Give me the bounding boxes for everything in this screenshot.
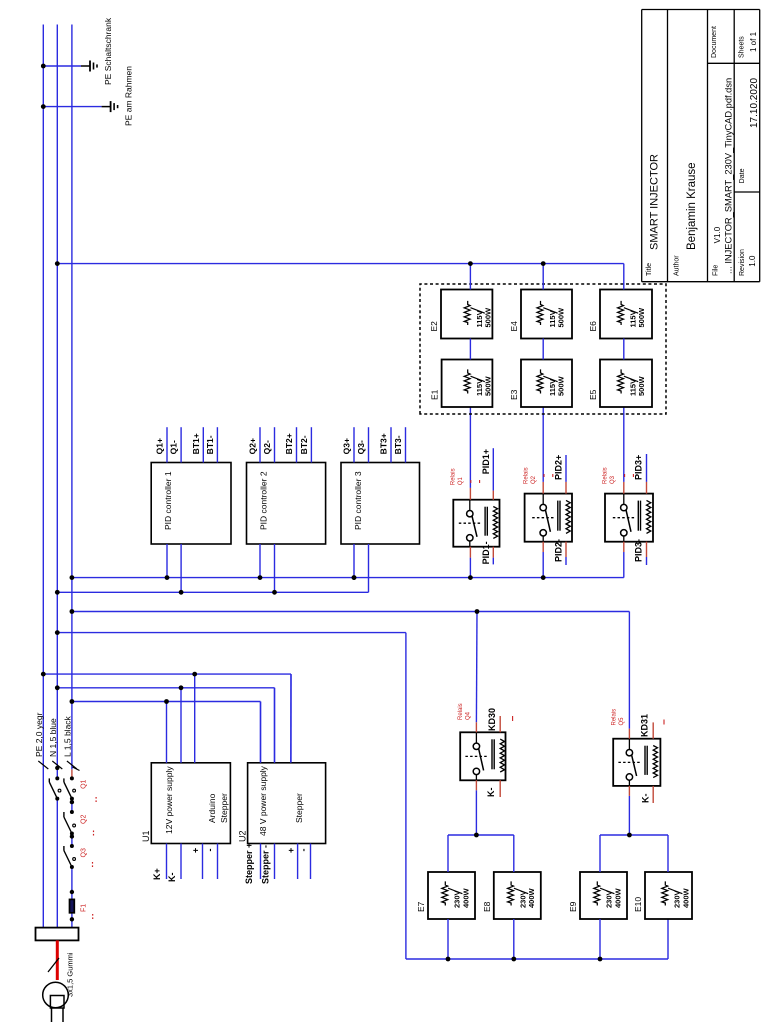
svg-text:KD30: KD30 <box>487 708 497 731</box>
svg-text:Arduino: Arduino <box>207 793 217 823</box>
svg-text:K-: K- <box>486 788 496 798</box>
svg-text:BT1-: BT1- <box>205 435 215 454</box>
svg-text:Q3: Q3 <box>610 475 616 484</box>
svg-text:E7: E7 <box>416 901 426 912</box>
svg-text:Document: Document <box>711 26 718 58</box>
svg-text:PID controller 1: PID controller 1 <box>163 471 173 530</box>
svg-text:E10: E10 <box>633 897 643 912</box>
svg-text:V1.0: V1.0 <box>713 226 722 243</box>
svg-text:Q1: Q1 <box>458 476 464 485</box>
svg-text:Stepper: Stepper <box>219 793 229 823</box>
svg-text:Author: Author <box>673 255 680 276</box>
svg-text:400W: 400W <box>461 887 470 908</box>
svg-text:-: - <box>205 849 215 852</box>
svg-text:Q2+: Q2+ <box>248 438 258 454</box>
svg-text:Stepper -: Stepper - <box>261 845 271 884</box>
svg-text:Relais: Relais <box>458 703 464 720</box>
svg-text:Q2: Q2 <box>81 815 88 824</box>
svg-text:Q4: Q4 <box>466 711 472 720</box>
svg-text:U1: U1 <box>141 830 151 842</box>
svg-text:E9: E9 <box>568 901 578 912</box>
svg-text:PE Schaltschrank: PE Schaltschrank <box>103 17 113 85</box>
svg-text:BT2-: BT2- <box>299 435 309 454</box>
svg-text:BT1+: BT1+ <box>191 433 201 454</box>
svg-text:Stepper +: Stepper + <box>244 843 254 884</box>
svg-text:400W: 400W <box>613 887 622 908</box>
svg-text:PID controller 2: PID controller 2 <box>259 471 269 530</box>
svg-text:PID2+: PID2+ <box>554 455 564 480</box>
svg-text:E1: E1 <box>430 389 440 400</box>
svg-text:Q3+: Q3+ <box>342 438 352 454</box>
svg-text:500W: 500W <box>637 375 646 396</box>
svg-text:+: + <box>286 848 296 853</box>
svg-text:Relais: Relais <box>603 467 609 484</box>
svg-text:E3: E3 <box>509 389 519 400</box>
svg-text:1.0: 1.0 <box>748 255 757 267</box>
svg-text:500W: 500W <box>557 307 566 328</box>
svg-text:E5: E5 <box>588 389 598 400</box>
svg-text:500W: 500W <box>557 375 566 396</box>
svg-text:Title: Title <box>646 263 653 276</box>
svg-text:17.10.2020: 17.10.2020 <box>749 78 760 128</box>
svg-text:Stepper: Stepper <box>294 793 304 823</box>
svg-text:PE am Rahmen: PE am Rahmen <box>124 66 134 126</box>
svg-text:PID3+: PID3+ <box>634 455 644 480</box>
svg-text:F1: F1 <box>81 904 88 912</box>
svg-text:Q1+: Q1+ <box>155 438 165 454</box>
svg-text:+: + <box>191 848 201 853</box>
svg-text:Relais: Relais <box>611 709 617 726</box>
svg-text:K+: K+ <box>152 868 162 880</box>
svg-text:PE 2,0 yegr: PE 2,0 yegr <box>34 712 44 757</box>
svg-text:Q5: Q5 <box>619 717 625 726</box>
svg-text:Q3-: Q3- <box>356 440 366 454</box>
svg-text:Relais: Relais <box>524 467 530 484</box>
svg-text:Benjamin Krause: Benjamin Krause <box>686 162 698 250</box>
svg-text:K-: K- <box>641 794 651 804</box>
svg-text:Q1-: Q1- <box>169 440 179 454</box>
svg-text:KD31: KD31 <box>639 714 649 737</box>
svg-text:PID controller 3: PID controller 3 <box>353 471 363 530</box>
svg-text:Relais: Relais <box>450 468 456 485</box>
svg-text:Sheets: Sheets <box>738 36 745 58</box>
svg-text:BT3-: BT3- <box>393 435 403 454</box>
svg-text:500W: 500W <box>484 307 493 328</box>
svg-text:Q1: Q1 <box>81 779 88 788</box>
svg-text:PID3-: PID3- <box>634 539 644 562</box>
svg-text:U2: U2 <box>237 830 247 842</box>
svg-text:Q3: Q3 <box>81 848 88 857</box>
svg-text:500W: 500W <box>484 375 493 396</box>
svg-text:Q2: Q2 <box>531 475 537 484</box>
svg-text:File: File <box>713 265 720 276</box>
svg-text:K-: K- <box>167 873 177 883</box>
svg-text:48 V power supply: 48 V power supply <box>258 765 268 836</box>
svg-text:500W: 500W <box>637 307 646 328</box>
svg-text:E4: E4 <box>509 321 519 332</box>
svg-text:BT2+: BT2+ <box>284 433 294 454</box>
svg-text:1 of 1: 1 of 1 <box>749 31 758 52</box>
svg-text:E2: E2 <box>429 321 439 332</box>
svg-text:Revision: Revision <box>739 249 746 276</box>
svg-text:PID2-: PID2- <box>554 539 564 562</box>
svg-text:PID1-: PID1- <box>481 541 491 564</box>
svg-text:12V power supply: 12V power supply <box>164 766 174 834</box>
svg-text:L 1,5 black: L 1,5 black <box>63 715 73 757</box>
svg-text:-: - <box>299 849 309 852</box>
svg-text:SMART INJECTOR: SMART INJECTOR <box>649 154 661 250</box>
svg-text:Date: Date <box>739 168 746 183</box>
svg-text:N 1,5 blue: N 1,5 blue <box>48 718 58 757</box>
svg-text:400W: 400W <box>527 887 536 908</box>
svg-text:PID1+: PID1+ <box>481 449 491 474</box>
svg-text:Q2-: Q2- <box>262 440 272 454</box>
svg-text:E8: E8 <box>482 901 492 912</box>
svg-text:E6: E6 <box>588 321 598 332</box>
svg-text:400W: 400W <box>681 887 690 908</box>
svg-text:... INJECTOR_SMART_230V_TinyCA: ... INJECTOR_SMART_230V_TinyCAD.pdf.dsn <box>723 78 733 274</box>
svg-text:BT3+: BT3+ <box>379 433 389 454</box>
